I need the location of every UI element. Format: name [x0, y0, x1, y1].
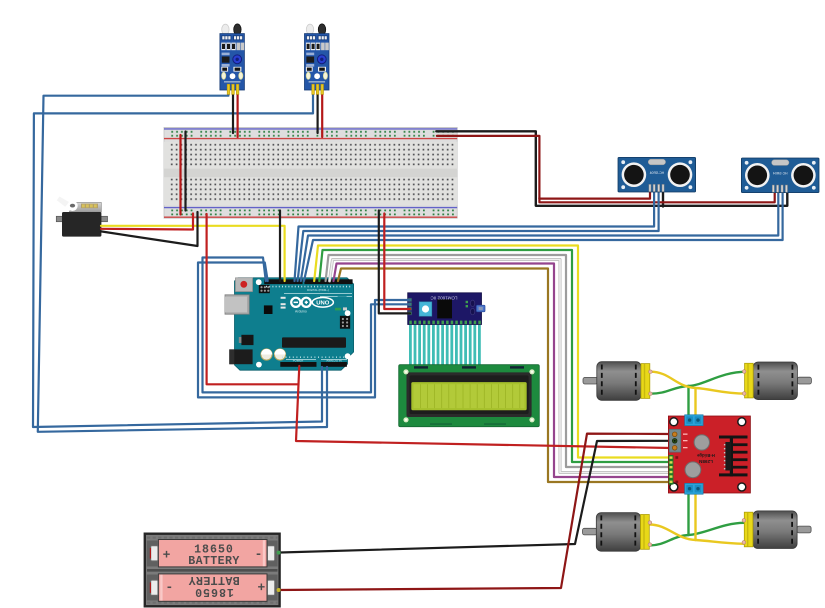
wire D-pin grey to driver IN — [326, 255, 671, 467]
wire green driver OUT to top motors — [687, 386, 689, 420]
LCD1602 display — [399, 365, 540, 427]
wire I2C SDA blue — [203, 258, 411, 393]
Arduino Uno U1 — [225, 278, 354, 370]
wire IR1 OUT blue to A5 — [38, 90, 327, 432]
wire black rail to sonar GND bus — [436, 131, 787, 206]
wire sonar2 ECHO blue — [304, 190, 783, 281]
DC motor M3 (bottom left) — [583, 513, 652, 552]
svg-text:+: + — [257, 579, 265, 594]
wire servo power red to rail — [101, 214, 193, 230]
wire servo ground black to rail — [101, 212, 198, 246]
wire IR2 GND black — [317, 88, 319, 133]
svg-text:UNO: UNO — [316, 301, 330, 307]
wire red Arduino Vin to driver 5V — [296, 366, 671, 448]
ultrasonic sensor HC-SR04 #2 — [741, 158, 819, 193]
wire IR2 OUT blue to A4 — [33, 90, 322, 427]
wire D-pin purple to driver IN — [334, 264, 672, 478]
wire D-pin green to driver IN — [319, 250, 671, 462]
svg-text:-: - — [165, 580, 173, 595]
battery cell B1 — [158, 540, 267, 567]
DC motor M1 (top left) — [583, 362, 652, 401]
breadboard — [164, 127, 457, 218]
svg-text:HC-SR04: HC-SR04 — [650, 171, 665, 175]
wire D-pin yellow to driver IN — [314, 246, 671, 458]
svg-text:-: - — [255, 546, 263, 561]
wire green driver OUT to bottom motors — [687, 490, 689, 535]
svg-text:Arduino: Arduino — [295, 309, 307, 313]
wire yellow driver OUT to top motors — [694, 388, 696, 420]
wire I2C SCL blue — [198, 263, 410, 398]
wire red battery plus to driver 12V — [276, 434, 671, 590]
wire servo signal yellow to D-pin — [101, 226, 285, 281]
battery cell B2 (flipped) — [158, 574, 267, 601]
wire sonar1 GND stub black — [662, 190, 664, 207]
IR line sensor module 1 — [220, 24, 245, 94]
wire yellow driver OUT to bottom motors — [694, 490, 696, 540]
wire I2C VCC red to rail — [384, 214, 410, 310]
jumper red rail-to-rail on breadboard — [179, 135, 181, 215]
lcd ribbon cable — [410, 323, 479, 366]
wire IR1 VCC red — [237, 88, 239, 137]
wire I2C GND black to rail — [379, 211, 410, 314]
svg-text:+: + — [163, 548, 171, 563]
svg-text:BATTERY: BATTERY — [188, 555, 240, 568]
svg-text:H-Bridge: H-Bridge — [696, 453, 714, 458]
DC motor M4 (bottom right) — [742, 511, 811, 549]
wire red rail to Arduino 5V junction — [207, 214, 299, 384]
servo motor — [56, 197, 107, 237]
IR line sensor module 2 — [305, 24, 330, 94]
wire black battery minus to driver GND — [276, 441, 671, 553]
wire red to sonar2 VCC — [539, 190, 774, 202]
motor driver L298N — [668, 415, 750, 494]
wire sonar1 TRIG blue — [295, 190, 655, 281]
wire sonar1 ECHO blue — [298, 190, 659, 281]
I2C backpack LCM1602 IIC U3 — [408, 293, 485, 325]
svg-text:BATTERY: BATTERY — [188, 573, 240, 586]
wire D-pin white to driver IN — [330, 260, 672, 473]
svg-text:L298N: L298N — [698, 459, 712, 464]
svg-text:DIGITAL (PWM~): DIGITAL (PWM~) — [307, 288, 329, 292]
wire IR1 GND black — [232, 88, 234, 133]
wire D-pin brown to driver IN — [338, 269, 671, 483]
wire red rail to sonar1 VCC — [437, 136, 650, 199]
battery holder 2x18650 — [145, 534, 281, 607]
svg-text:ANALOG IN: ANALOG IN — [326, 358, 341, 362]
svg-text:POWER: POWER — [293, 358, 304, 362]
wire IR2 VCC red — [321, 88, 323, 137]
wire black rail to Arduino GND — [279, 211, 281, 282]
wire sonar2 TRIG blue — [301, 190, 779, 281]
ultrasonic sensor HC-SR04 #1 — [618, 157, 696, 192]
DC motor M2 (top right) — [742, 362, 811, 400]
jumper black rail-to-rail on breadboard — [184, 132, 186, 211]
